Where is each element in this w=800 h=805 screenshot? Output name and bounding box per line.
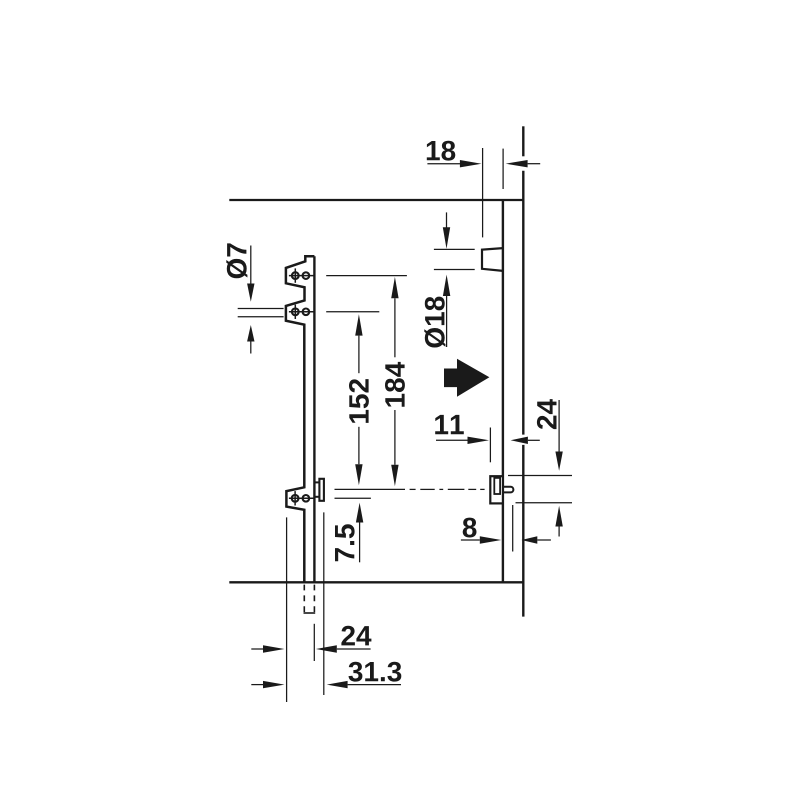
dimension 8 extension line <box>512 505 514 552</box>
cabinet bottom edge <box>229 581 523 583</box>
tab2 hole centerline <box>289 311 315 313</box>
tab2 screw hole A <box>292 308 299 315</box>
lower bracket screw hole B <box>303 495 310 502</box>
dimension 184 extension line <box>326 275 407 277</box>
label 152 <box>349 379 369 423</box>
dimension Ø7 line and arrows <box>250 246 252 284</box>
tab1 hole A vertical tick <box>294 268 296 282</box>
label Ø7 <box>226 243 247 278</box>
tab2 screw hole B <box>303 309 310 316</box>
label Ø18 <box>424 297 445 348</box>
side panel outer face <box>522 126 524 616</box>
lower bracket hole centerline <box>289 497 315 499</box>
dimension 24 bottom line and arrows <box>251 648 263 650</box>
direction arrow icon <box>444 359 489 397</box>
tab2 hole A vertical tick <box>294 305 296 319</box>
dimension 18 extension line B <box>502 149 504 189</box>
tab1 hole centerline <box>289 275 315 277</box>
dimension 7.5 lower arrow <box>356 503 363 523</box>
cabinet top edge <box>229 199 523 201</box>
tab1 screw hole A <box>292 272 299 279</box>
label 18 <box>427 141 456 161</box>
dimension Ø18 lower arrow <box>443 275 450 296</box>
label 184 <box>385 362 405 407</box>
rail right edge <box>313 256 315 582</box>
dimension 24 bottom extension line left <box>286 517 288 702</box>
dimension 31.3 line and arrows <box>251 684 263 686</box>
dimension 11 extension line <box>489 428 491 463</box>
dimension 24 right lower arrow <box>555 506 562 527</box>
dimension 7.5 hole line <box>335 497 371 499</box>
dimension 184 line and arrows <box>391 277 398 298</box>
label 7.5 <box>335 524 355 561</box>
hidden rail below (dashed) <box>304 585 314 613</box>
dimension 24 right upper arrow <box>558 400 560 452</box>
rail pin bar <box>319 479 324 501</box>
dimension 24 right extension lines <box>508 476 572 503</box>
centerline (dash-dot) <box>335 488 485 490</box>
dimension 24 bottom extension line right <box>313 624 315 661</box>
label 24 right <box>537 399 557 429</box>
rail pin neck <box>314 481 319 483</box>
rail profile with mounting tabs <box>286 256 315 582</box>
lower bracket hole A vertical tick <box>294 491 296 505</box>
catch slot <box>494 478 500 494</box>
drilled hole Ø18 cup <box>482 248 503 271</box>
label 11 <box>435 415 464 434</box>
dimension Ø7 extension lines <box>238 309 284 317</box>
dimension 18 (panel) extension line A <box>482 148 484 237</box>
dimension 152 extension line <box>326 311 379 313</box>
label 31.3 <box>349 662 402 682</box>
catch pin <box>503 487 513 493</box>
dimension 11 line and arrows <box>436 439 468 441</box>
dimension 152 line and arrows <box>355 314 362 335</box>
side panel inner face <box>502 200 504 582</box>
tab1 screw hole B <box>303 272 310 279</box>
dimension 8 line and arrows <box>461 539 480 541</box>
label 8 <box>463 518 477 538</box>
dimension Ø18 upper arrow <box>446 212 448 228</box>
lower bracket screw hole A <box>292 495 299 502</box>
dimension 18 line and arrows <box>427 163 540 165</box>
dimension Ø18 extension lines <box>434 249 475 269</box>
catch housing <box>490 476 503 503</box>
dimension 31.3 extension line right <box>323 512 325 695</box>
label 24 bottom <box>341 626 371 646</box>
dimension Ø7 lower arrow <box>247 325 254 342</box>
